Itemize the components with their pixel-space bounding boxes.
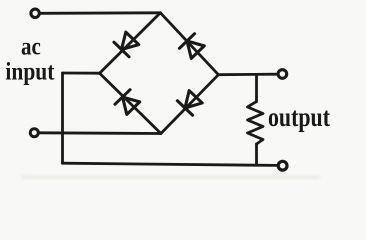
wire top: ac top terminal to bridge top node: [40, 11, 161, 14]
svg-text:ac: ac: [21, 34, 41, 61]
wire resistor bottom to bottom return: [255, 144, 258, 165]
wire bridge lower-left branch (left node to bottom node): [100, 73, 161, 133]
page-edge shadow smudge: [22, 176, 320, 179]
diode D4 (lower-right branch, pointing toward bottom node): [177, 90, 203, 116]
diode D1 (upper-left branch, pointing toward left node): [114, 31, 140, 57]
wire bridge lower-right branch (bottom node to right node): [161, 75, 219, 134]
diode D2 (upper-right branch, pointing toward top node): [179, 34, 205, 60]
terminal ac top-left: [31, 9, 39, 17]
svg-text:input: input: [5, 59, 55, 86]
wire from mid-left terminal to bottom node: [39, 131, 161, 134]
terminal output top-right: [278, 70, 287, 79]
terminal output bottom-right: [278, 161, 287, 170]
wire junction down to resistor: [255, 75, 258, 102]
diode D3 (lower-left branch, pointing toward left node): [115, 90, 141, 116]
wire right node to output plus terminal: [218, 73, 276, 76]
wire bridge upper-right branch (top node to right node): [160, 13, 218, 75]
wire left node stub going left: [63, 72, 100, 75]
wire bottom return to output minus terminal: [63, 163, 278, 165]
svg-text:output: output: [268, 102, 330, 132]
wire vertical left return: [61, 73, 64, 163]
wire bridge upper-left branch (top node to left node): [100, 13, 161, 73]
terminal ac mid-left: [30, 129, 38, 137]
resistor R load (zigzag): [248, 102, 264, 145]
